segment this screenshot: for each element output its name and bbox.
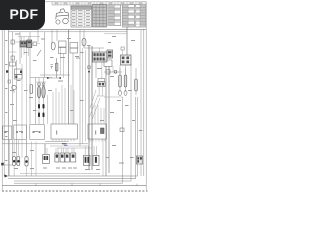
wire: vertical x73 bbox=[72, 53, 74, 124]
controller box U1 small A bbox=[3, 126, 12, 140]
motor M2 bbox=[84, 155, 91, 165]
wire: horizontal harness lines y141-147 bbox=[45, 141, 69, 143]
wire: vertical x44.5 bbox=[44, 32, 46, 78]
wire: horizontal y36.5 top-left bbox=[18, 36, 40, 38]
coil L2 bbox=[42, 86, 45, 98]
wire: vertical x16.5 bbox=[16, 60, 18, 165]
wire: vertical x38 top bbox=[37, 30, 39, 42]
wire: fan into controller box D bbox=[53, 85, 74, 124]
relay K2 bbox=[27, 40, 32, 48]
wire: vertical x60.5/63.5 short bbox=[60, 47, 62, 75]
wire: horizontal y77.5 left bbox=[30, 77, 52, 79]
wire: vertical x57 top bbox=[56, 30, 58, 41]
controller box U3 small C bbox=[30, 125, 45, 140]
connector X9 upper bbox=[98, 79, 105, 82]
diode D3 bbox=[43, 104, 45, 109]
diode D2 bbox=[38, 113, 40, 118]
relay K5 upper bbox=[59, 41, 67, 47]
wire: page left border bbox=[2, 2, 4, 191]
wire: diagonal harness wires bbox=[89, 90, 100, 120]
wire: vertical x101.9 bbox=[101, 62, 103, 79]
fuse F3 pill bbox=[30, 85, 33, 94]
connector X1 bbox=[33, 42, 37, 46]
relay K5 lower bbox=[59, 48, 67, 54]
wire: verticals through fuse pills right bbox=[119, 68, 121, 92]
lamp E2 bbox=[124, 90, 127, 95]
wire: X6 to K8 bbox=[122, 50, 124, 55]
node: junction dot B bbox=[59, 77, 61, 79]
wire: bottom bus line 1 bbox=[8, 175, 138, 177]
wire: vertical x113 stub bbox=[112, 66, 114, 72]
node: junction dot C bbox=[88, 71, 90, 73]
wire: vertical x122.5 lower bbox=[122, 97, 124, 183]
wire: horizontal y72 with connector circle bbox=[104, 71, 122, 73]
wire: frame tick marks bbox=[36, 184, 137, 186]
relay K8 bbox=[121, 55, 132, 65]
relay K1 bbox=[20, 41, 27, 47]
relay K6 upper bbox=[70, 43, 78, 49]
fuse F4 pill bbox=[55, 63, 58, 71]
node: legend table T3 bbox=[108, 5, 121, 26]
lamp E3 bbox=[13, 157, 16, 166]
wire: double vertical x106/x109 bbox=[105, 66, 107, 176]
wire: horizontal y78 with junction dots bbox=[48, 77, 61, 79]
wire: vertical x127 top bbox=[126, 27, 128, 55]
wire: vertical x96 bbox=[95, 62, 97, 78]
wire: second header line bbox=[9, 31, 128, 33]
wire: vertical x20 bbox=[19, 32, 21, 64]
motor M1 oval bbox=[51, 42, 55, 50]
wire: relay pin stubs bbox=[22, 37, 29, 59]
actuator A1 bbox=[43, 155, 50, 164]
motor M3 bbox=[93, 155, 99, 165]
fuse F7 pill bbox=[135, 79, 138, 91]
node: left margin tick labels bbox=[5, 40, 7, 161]
node: legend table T5 bbox=[136, 5, 146, 28]
wire: X9 tails bbox=[98, 87, 100, 97]
switch S3 bbox=[60, 153, 64, 162]
node: tractor vehicle drawing bbox=[56, 9, 69, 24]
lamp E4 bbox=[17, 157, 20, 166]
connector X3 (two cells) bbox=[15, 69, 23, 75]
wire: vertical x136 bbox=[135, 68, 137, 95]
connector circle X7 bbox=[114, 70, 117, 73]
wire: right bus pair x135.5/x137.5 bbox=[135, 97, 137, 179]
sensor box B3 bbox=[104, 60, 112, 67]
wire: horizontal y52 left bbox=[9, 51, 17, 53]
wire: vertical x30 bbox=[29, 32, 31, 124]
wire: horizontal y96 bbox=[98, 95, 105, 97]
fuse F1 bbox=[11, 40, 15, 44]
wire: vertical x103 lower bbox=[102, 139, 104, 176]
wire: grid feed x99.5 bbox=[99, 48, 101, 52]
sensor dark box B4 bbox=[101, 128, 105, 134]
sensor oval B2 bbox=[82, 38, 86, 46]
inline connector box bbox=[106, 70, 110, 74]
wire: vertical x84 with oval bbox=[83, 30, 85, 48]
wire: double vertical bus x89/x92 bbox=[88, 46, 90, 170]
switch S2 bbox=[55, 153, 59, 162]
horn B6 circle bbox=[12, 85, 16, 89]
wire: bottom bus line 4 bbox=[14, 182, 123, 184]
connector cap L2 bbox=[42, 83, 45, 86]
wire: page top border bbox=[2, 1, 146, 3]
wire: horizontal frame line under header bbox=[3, 29, 147, 31]
ground lug bbox=[6, 70, 8, 72]
wire: vertical x26.5 bbox=[26, 47, 28, 158]
fuse F5 pill bbox=[119, 75, 122, 87]
connector X8 bbox=[120, 128, 124, 132]
lamp E5 bbox=[25, 157, 28, 167]
switch S1 block bbox=[10, 62, 16, 66]
lamp E1 bbox=[119, 90, 122, 95]
wire: link cluster to bus bbox=[15, 41, 21, 43]
ground lug bottom left bbox=[1, 163, 4, 166]
node: top title strip cells bbox=[52, 2, 146, 5]
connector grid X5 bbox=[93, 52, 108, 62]
terminal block bbox=[8, 80, 11, 83]
wire: page right border bbox=[144, 2, 146, 191]
wire: bottom bus line 2 bbox=[8, 178, 136, 180]
wire: vertical x47.5 bbox=[47, 95, 49, 124]
wire: page bottom frame line bbox=[2, 185, 146, 187]
wire: vertical x12.5 bbox=[12, 32, 14, 160]
node: scattered text labels bbox=[6, 34, 143, 171]
wire: horizontal y48 bbox=[84, 47, 104, 49]
controller box U5 (ECU) bbox=[88, 124, 107, 142]
switch S4 bbox=[65, 153, 69, 162]
wire: vertical x85.5 bbox=[85, 50, 87, 142]
wire: bottom bus line 3 bbox=[14, 180, 131, 182]
wire: vertical x56.6 (through fuse) bbox=[56, 58, 58, 78]
connector small X6 bbox=[121, 47, 124, 50]
terminal on bus bbox=[88, 66, 90, 69]
connector X9 lower bbox=[98, 82, 105, 87]
relay K7 bbox=[107, 50, 113, 58]
capacitor C1 bbox=[51, 65, 54, 69]
controller box U4 (ECU) bbox=[51, 124, 78, 142]
wire: vertical x80 bbox=[79, 30, 81, 146]
wire: horizontal y82 bbox=[36, 81, 46, 83]
wire: verticals through lamp column bbox=[38, 78, 40, 125]
node: junction dot A bbox=[47, 77, 49, 79]
fuse F2 bbox=[11, 56, 15, 60]
wire: perforation dashed cut line bbox=[2, 190, 148, 192]
wire: horizontal y93 right bbox=[104, 96, 123, 98]
node: violet wire label bbox=[62, 143, 67, 144]
coil L1 bbox=[37, 86, 40, 98]
PDF badge bbox=[0, 0, 45, 30]
node: legend table T1 bbox=[71, 6, 92, 27]
node: legend table T4 bbox=[122, 5, 134, 28]
wire: fan into controller box E bbox=[95, 105, 104, 124]
wire: vertical x82.5 bbox=[82, 48, 84, 144]
switch S5 bbox=[71, 153, 76, 162]
switch S6 diagonal bbox=[37, 50, 41, 56]
wire: stub from relay K8 bbox=[125, 65, 127, 75]
wire: right bus x141 bbox=[140, 30, 142, 176]
connector cap L1 bbox=[38, 83, 41, 86]
connector X4 bbox=[15, 75, 23, 80]
node: legend table T2 (shaded grid) bbox=[93, 5, 107, 28]
wire: left horizontal y165 bbox=[3, 164, 13, 166]
relay K6 lower bbox=[70, 48, 78, 53]
wire: horizontal y75 bbox=[40, 74, 70, 76]
wire: stubs and verticals bottom band bbox=[9, 140, 96, 176]
fuse F6 pill bbox=[124, 75, 127, 87]
sensor B5 bbox=[136, 156, 142, 164]
wire: center vertical bus x68.5 bbox=[68, 30, 70, 124]
wire: vertical x22 lower bbox=[21, 64, 23, 158]
wire: bottom bus line 5 bbox=[20, 173, 100, 175]
wire: vertical x131 bbox=[130, 64, 132, 181]
wire: ground feeder mark bottom left bbox=[5, 175, 9, 178]
wire: horn stem bbox=[13, 90, 15, 93]
wire: vertical x52 top bbox=[51, 30, 53, 44]
wire: vertical bus x8.5 bbox=[8, 30, 10, 176]
wire: vertical x35.5 bbox=[35, 78, 37, 125]
diode D4 bbox=[43, 113, 45, 118]
wire: horizontal y33.8 right bbox=[104, 33, 127, 35]
diode D1 bbox=[38, 104, 40, 109]
controller box U2 small B bbox=[14, 125, 26, 140]
